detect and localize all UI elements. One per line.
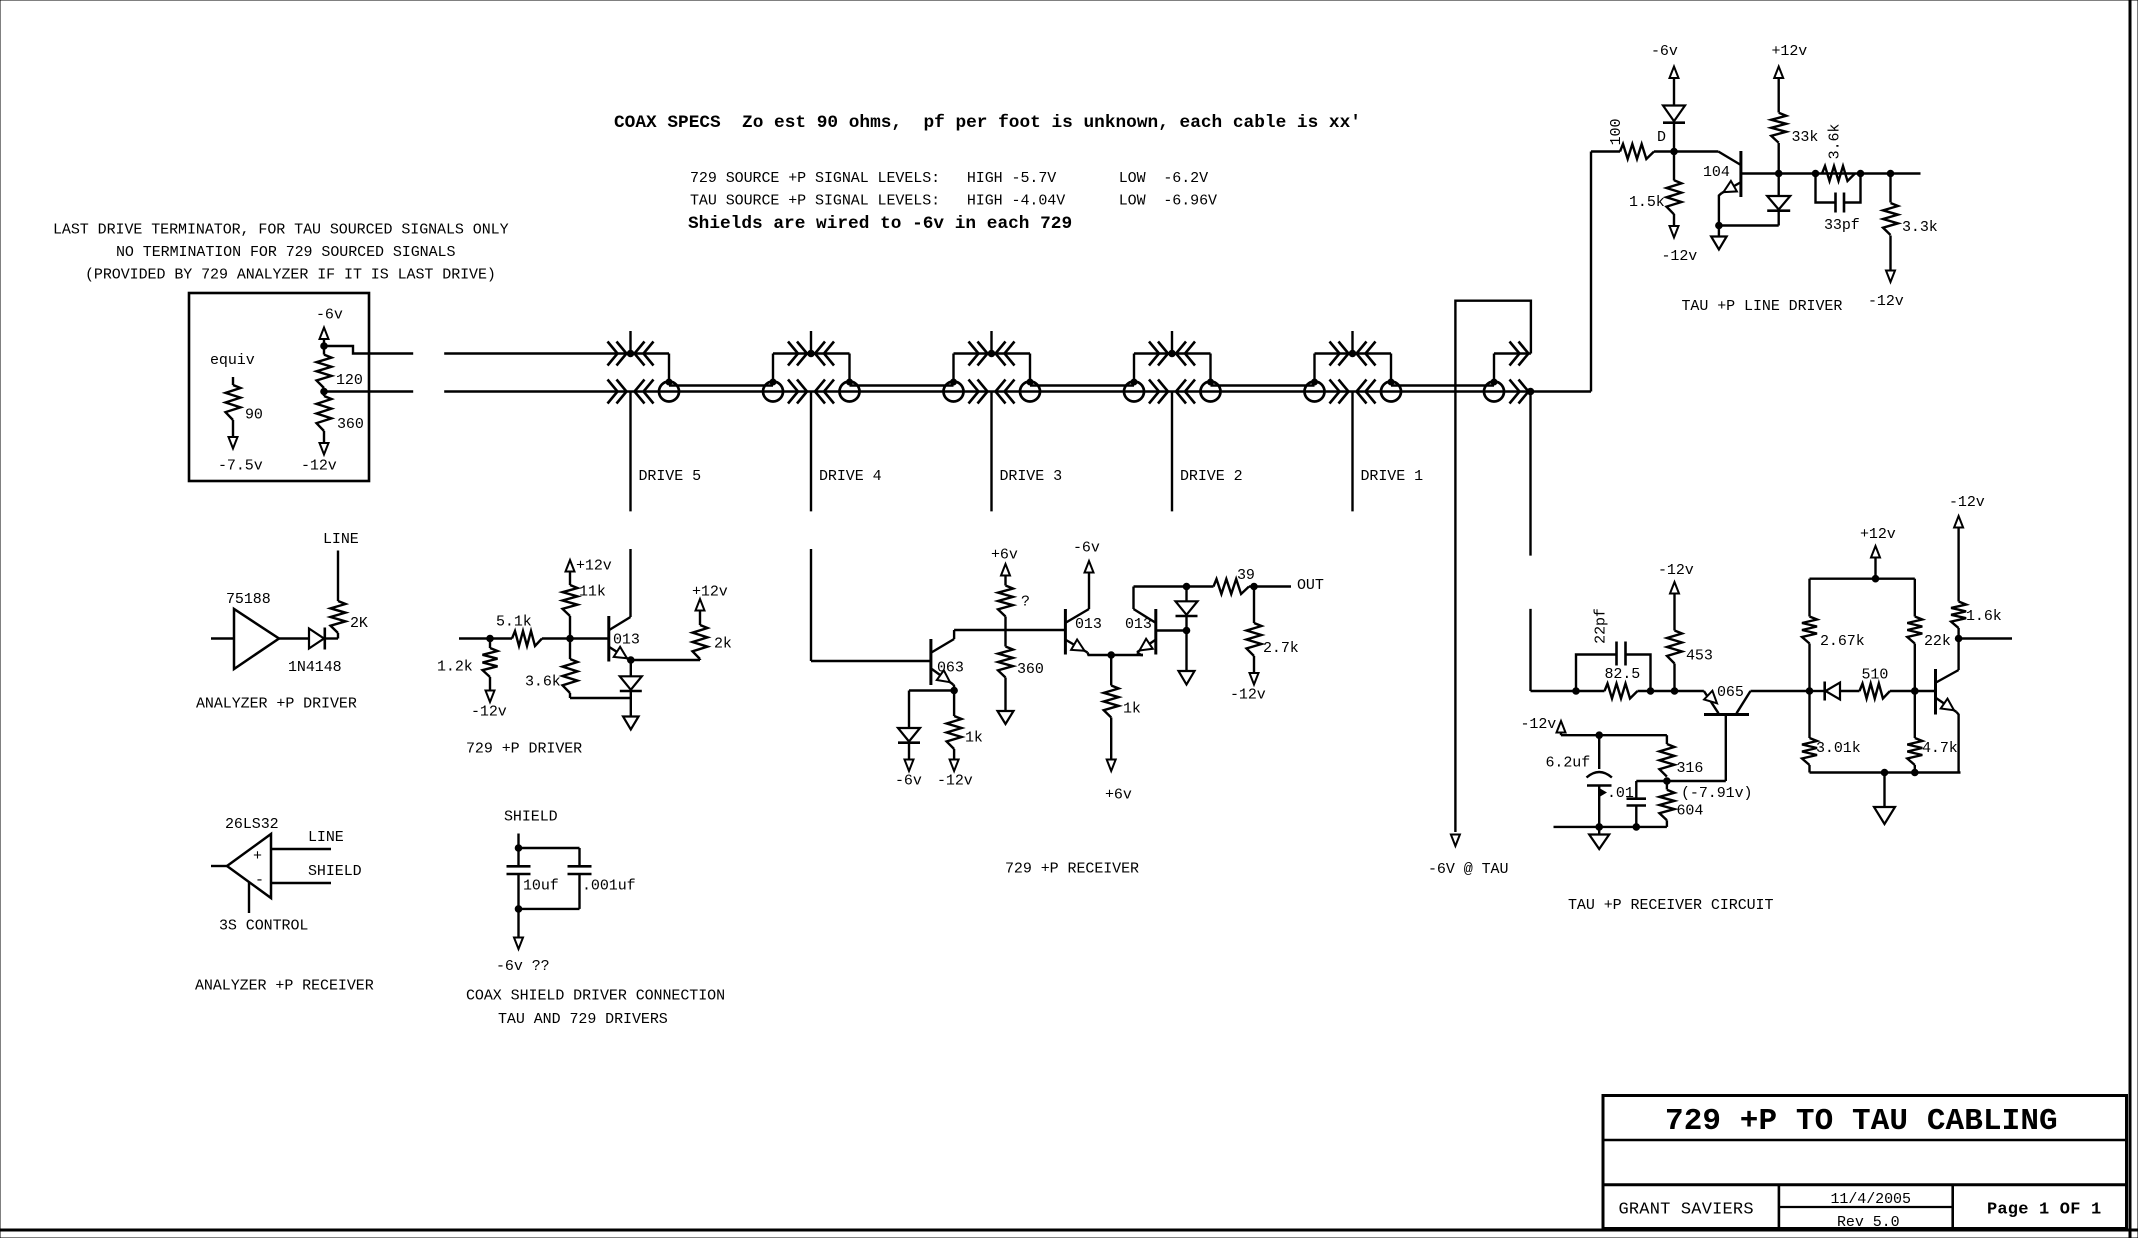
svg-text:+12v: +12v [576, 558, 612, 575]
svg-text:+6v: +6v [991, 547, 1018, 564]
svg-text:2k: 2k [714, 636, 732, 653]
svg-text:Rev 5.0: Rev 5.0 [1837, 1214, 1900, 1231]
svg-text:604: 604 [1677, 803, 1704, 820]
svg-text:+12v: +12v [692, 584, 728, 601]
svg-text:ANALYZER +P RECEIVER: ANALYZER +P RECEIVER [195, 978, 374, 995]
svg-text:SHIELD: SHIELD [504, 809, 558, 826]
svg-text:2.7k: 2.7k [1263, 640, 1299, 657]
svg-text:.01: .01 [1607, 785, 1634, 802]
svg-text:3.6k: 3.6k [525, 674, 561, 691]
svg-text:1.6k: 1.6k [1966, 608, 2002, 625]
svg-text:ANALYZER +P DRIVER: ANALYZER +P DRIVER [196, 696, 357, 713]
svg-text:DRIVE 5: DRIVE 5 [639, 468, 702, 485]
svg-text:120: 120 [336, 372, 363, 389]
svg-text:SHIELD: SHIELD [308, 863, 362, 880]
svg-text:2.67k: 2.67k [1820, 633, 1865, 650]
svg-text:TAU AND 729 DRIVERS: TAU AND 729 DRIVERS [498, 1011, 668, 1028]
svg-text:+6v: +6v [1105, 787, 1132, 804]
svg-text:013: 013 [613, 632, 640, 649]
svg-text:100: 100 [1608, 119, 1625, 146]
svg-text:1.2k: 1.2k [437, 659, 473, 676]
svg-text:-6v: -6v [1651, 43, 1678, 60]
svg-text:22pf: 22pf [1593, 608, 1610, 644]
svg-text:-12v: -12v [1521, 716, 1557, 733]
svg-text:-12v: -12v [1868, 293, 1904, 310]
svg-text:LINE: LINE [323, 531, 359, 548]
svg-text:-6v ??: -6v ?? [496, 958, 550, 975]
svg-text:D: D [1657, 129, 1666, 146]
svg-text:-12v: -12v [1658, 562, 1694, 579]
svg-text:510: 510 [1862, 667, 1889, 684]
svg-text:-6v: -6v [1073, 540, 1100, 557]
svg-text:-12v: -12v [937, 773, 973, 790]
svg-text:6.2uf: 6.2uf [1546, 755, 1591, 772]
svg-text:065: 065 [1717, 684, 1744, 701]
svg-text:Shields are wired to -6v in ea: Shields are wired to -6v in each 729 [688, 214, 1072, 234]
svg-text:DRIVE 3: DRIVE 3 [1000, 468, 1063, 485]
svg-text:1k: 1k [1123, 701, 1141, 718]
svg-text:-6v: -6v [316, 307, 343, 324]
svg-text:013: 013 [1125, 616, 1152, 633]
svg-text:3S CONTROL: 3S CONTROL [219, 918, 308, 935]
svg-text:75188: 75188 [226, 591, 271, 608]
svg-text:1.5k: 1.5k [1629, 194, 1665, 211]
svg-text:5.1k: 5.1k [496, 614, 532, 631]
svg-text:22k: 22k [1924, 633, 1951, 650]
svg-text:+12v: +12v [1860, 526, 1896, 543]
svg-text:360: 360 [337, 416, 364, 433]
svg-text:.001uf: .001uf [582, 878, 636, 895]
svg-text:11k: 11k [579, 584, 606, 601]
svg-text:063: 063 [937, 660, 964, 677]
svg-text:2K: 2K [350, 615, 368, 632]
svg-text:104: 104 [1703, 164, 1730, 181]
svg-text:DRIVE 2: DRIVE 2 [1180, 468, 1243, 485]
svg-text:DRIVE 1: DRIVE 1 [1361, 468, 1424, 485]
svg-text:1N4148: 1N4148 [288, 659, 342, 676]
svg-text:729 +P TO TAU CABLING: 729 +P TO TAU CABLING [1665, 1104, 2058, 1139]
svg-text:729 SOURCE +P SIGNAL LEVELS:: 729 SOURCE +P SIGNAL LEVELS: HIGH -5.7V … [690, 170, 1208, 187]
svg-text:OUT: OUT [1297, 577, 1324, 594]
svg-text:TAU SOURCE +P SIGNAL LEVELS:: TAU SOURCE +P SIGNAL LEVELS: HIGH -4.04V… [690, 193, 1217, 210]
svg-text:LINE: LINE [308, 829, 344, 846]
svg-text:11/4/2005: 11/4/2005 [1831, 1191, 1911, 1208]
svg-text:(PROVIDED BY 729 ANALYZER IF I: (PROVIDED BY 729 ANALYZER IF IT IS LAST … [85, 267, 496, 284]
svg-text:33k: 33k [1792, 129, 1819, 146]
svg-text:453: 453 [1686, 648, 1713, 665]
svg-text:-7.5v: -7.5v [218, 458, 263, 475]
svg-text:?: ? [1021, 594, 1030, 611]
svg-text:DRIVE 4: DRIVE 4 [819, 468, 882, 485]
svg-text:-12v: -12v [471, 704, 507, 721]
svg-text:26LS32: 26LS32 [225, 816, 279, 833]
svg-text:TAU +P LINE DRIVER: TAU +P LINE DRIVER [1682, 298, 1843, 315]
svg-text:LAST DRIVE TERMINATOR, FOR TAU: LAST DRIVE TERMINATOR, FOR TAU SOURCED S… [53, 222, 509, 239]
svg-text:3.01k: 3.01k [1816, 740, 1861, 757]
svg-text:3.6k: 3.6k [1827, 124, 1844, 160]
svg-text:-12v: -12v [301, 458, 337, 475]
svg-text:COAX SHIELD DRIVER CONNECTION: COAX SHIELD DRIVER CONNECTION [466, 988, 725, 1005]
svg-text:(-7.91v): (-7.91v) [1681, 785, 1752, 802]
svg-text:10uf: 10uf [523, 878, 559, 895]
svg-text:-: - [255, 872, 264, 889]
svg-text:82.5: 82.5 [1605, 666, 1641, 683]
svg-text:729 +P DRIVER: 729 +P DRIVER [466, 741, 582, 758]
svg-text:GRANT SAVIERS: GRANT SAVIERS [1619, 1201, 1754, 1220]
svg-text:-6v: -6v [895, 773, 922, 790]
svg-text:+12v: +12v [1772, 43, 1808, 60]
svg-text:NO TERMINATION FOR 729 SOURCED: NO TERMINATION FOR 729 SOURCED SIGNALS [116, 244, 455, 261]
svg-text:729 +P RECEIVER: 729 +P RECEIVER [1005, 861, 1139, 878]
svg-text:-12v: -12v [1230, 687, 1266, 704]
svg-text:+: + [253, 848, 262, 865]
svg-text:-12v: -12v [1662, 248, 1698, 265]
svg-text:316: 316 [1677, 760, 1704, 777]
svg-text:COAX SPECS Zo est 90 ohms, p: COAX SPECS Zo est 90 ohms, pf per foot i… [614, 113, 1361, 133]
svg-text:1k: 1k [965, 730, 983, 747]
svg-text:4.7k: 4.7k [1922, 740, 1958, 757]
svg-text:Page 1 OF 1: Page 1 OF 1 [1987, 1201, 2101, 1220]
svg-text:equiv: equiv [210, 352, 255, 369]
svg-text:39: 39 [1237, 567, 1255, 584]
svg-text:TAU +P RECEIVER CIRCUIT: TAU +P RECEIVER CIRCUIT [1568, 897, 1773, 914]
svg-text:-6V @ TAU: -6V @ TAU [1428, 861, 1508, 878]
svg-text:3.3k: 3.3k [1902, 219, 1938, 236]
svg-text:-12v: -12v [1949, 494, 1985, 511]
svg-text:90: 90 [245, 407, 263, 424]
svg-text:360: 360 [1017, 661, 1044, 678]
svg-text:013: 013 [1075, 616, 1102, 633]
svg-text:33pf: 33pf [1824, 217, 1860, 234]
